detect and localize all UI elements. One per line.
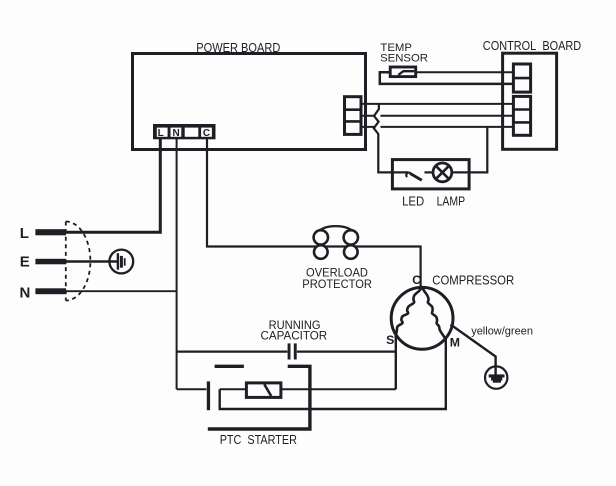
power board connector J3 (3 pins): [345, 97, 362, 135]
wire L terminal to power board: [66, 139, 160, 232]
ptc starter through-wire segments: [177, 388, 396, 390]
control board U2 outline: [503, 53, 557, 149]
svg-text:POWER BOARD: POWER BOARD: [196, 41, 280, 55]
wire switch to lamp: [425, 171, 434, 173]
wire compressor shell to protective earth (yellow/green): [451, 325, 496, 375]
wire N terminal bar to vertical: [66, 290, 177, 292]
ptc element diagonal: [264, 384, 271, 396]
svg-text:SENSOR: SENSOR: [380, 53, 428, 65]
wire S down to ptc through-wire: [395, 336, 397, 390]
overload protector F1 coils: [314, 226, 358, 259]
earth symbol circle at E: [109, 250, 133, 274]
wire lamp right up to bus wire: [452, 127, 488, 172]
power board U1 outline: [133, 54, 366, 150]
wire N power board down to bottom circuit: [176, 139, 178, 389]
svg-text:PROTECTOR: PROTECTOR: [302, 277, 372, 291]
wire temp sensor top to control board J1 pin1: [417, 71, 514, 73]
svg-text:E: E: [20, 254, 30, 271]
terminal strip L N C body: [153, 124, 216, 139]
svg-text:LAMP: LAMP: [437, 195, 466, 209]
svg-text:N: N: [172, 128, 179, 139]
wire power J3 pin3 to control J2 pin3 (broken at harness mark): [361, 126, 513, 128]
lamp symbol circle with cross: [433, 163, 452, 182]
wire temp sensor left lead down and to control board J1 pin2: [380, 72, 514, 84]
svg-text:CONTROL BOARD: CONTROL BOARD: [483, 39, 581, 53]
terminal cell C: [201, 128, 212, 137]
svg-text:N: N: [20, 284, 31, 301]
terminal bar N: [35, 288, 66, 294]
temp sensor RT1 body: [390, 67, 416, 77]
protective earth symbol circle: [485, 366, 507, 388]
ptc starter housing top-left bar: [215, 365, 244, 368]
terminal cell blank: [185, 128, 199, 137]
running capacitor C1 wire right: [297, 350, 396, 352]
wire power J3 pin1 to control J2 pin1: [361, 103, 513, 105]
harness mark and wire down to led lamp left: [374, 104, 408, 172]
svg-text:yellow/green: yellow/green: [471, 326, 533, 338]
running capacitor plates: [288, 343, 291, 359]
running capacitor C1 wire left: [177, 350, 288, 352]
terminal bar L: [35, 229, 66, 235]
control board connector J1 (2 pins): [513, 64, 530, 92]
svg-text:L: L: [20, 225, 29, 242]
earth symbol bars: [117, 253, 119, 270]
svg-text:CAPACITOR: CAPACITOR: [261, 330, 328, 343]
ptc starter housing top-right bar, right side and bottom: [208, 366, 310, 429]
temp sensor internal element: [398, 71, 414, 75]
ptc starter pin bar: [207, 381, 210, 410]
svg-text:COMPRESSOR: COMPRESSOR: [432, 273, 514, 288]
compressor M1 shell: [391, 287, 453, 349]
led lamp box: [392, 160, 469, 189]
wire power J3 pin2 to control J2 pin2 (broken at harness mark): [361, 115, 513, 117]
control board connector J2 (3 pins): [513, 96, 530, 135]
compressor windings: [396, 288, 422, 337]
terminal bar E: [35, 259, 66, 265]
wire E to earth symbol: [66, 260, 117, 263]
terminal cell N: [171, 128, 182, 137]
terminal cell L: [157, 128, 168, 137]
switch blade inside led lamp: [410, 173, 422, 180]
svg-text:PTC STARTER: PTC STARTER: [220, 432, 297, 447]
wire M down, bottom run, up to junction: [220, 339, 446, 410]
wire C power board to overload protector and compressor C: [207, 139, 421, 288]
svg-text:C: C: [412, 273, 421, 287]
protective earth filled symbol: [489, 374, 505, 377]
mains plug dashed outline: [66, 222, 91, 301]
ptc element box: [246, 383, 281, 398]
svg-text:L: L: [158, 128, 164, 139]
svg-text:C: C: [203, 128, 210, 139]
svg-text:LED: LED: [402, 195, 424, 209]
svg-text:M: M: [450, 335, 460, 349]
svg-text:S: S: [386, 333, 394, 347]
